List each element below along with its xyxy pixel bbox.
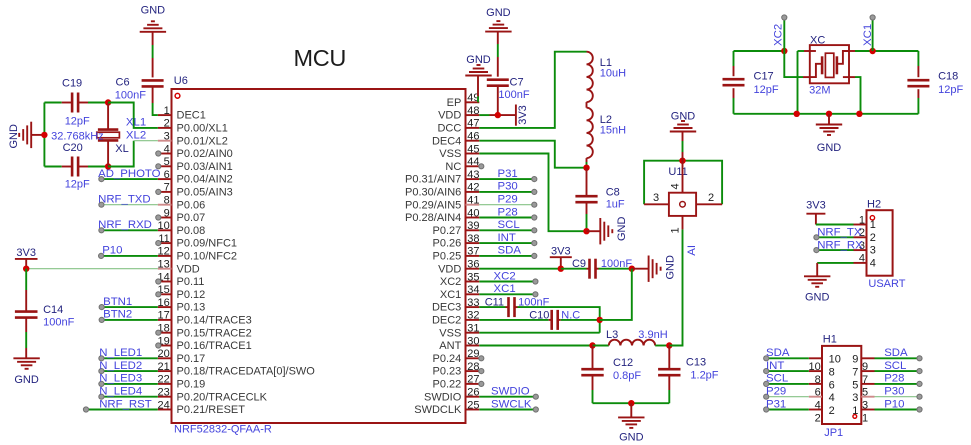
svg-text:0.8pF: 0.8pF: [613, 370, 641, 382]
svg-text:GND: GND: [14, 374, 39, 386]
svg-text:P28: P28: [884, 373, 904, 385]
wire DEC3 pin 33 to C11: [479, 306, 508, 308]
svg-text:AD_PHOTO: AD_PHOTO: [98, 168, 161, 180]
svg-text:1: 1: [852, 405, 858, 417]
svg-text:4: 4: [870, 258, 876, 270]
svg-text:P0.25: P0.25: [433, 251, 462, 263]
U6 left pin numbers: [158, 105, 170, 411]
wire bottom branch to C20: [44, 166, 72, 168]
svg-text:P0.30/AIN6: P0.30/AIN6: [405, 187, 461, 199]
svg-text:XL2: XL2: [126, 130, 146, 142]
wire net N_LED1: [101, 357, 157, 359]
svg-text:N_LED4: N_LED4: [99, 386, 142, 398]
svg-text:3V3: 3V3: [16, 247, 36, 259]
capacitor C8: [575, 186, 625, 210]
svg-text:DEC3: DEC3: [432, 302, 461, 314]
svg-text:P0.23: P0.23: [433, 366, 462, 378]
wire net NRF_RST: [86, 409, 158, 411]
svg-text:XL: XL: [115, 143, 128, 155]
svg-text:8: 8: [829, 367, 835, 379]
svg-text:XC2: XC2: [773, 24, 785, 46]
svg-text:P0.08: P0.08: [177, 225, 206, 237]
svg-text:GND: GND: [141, 5, 166, 17]
svg-text:4: 4: [859, 253, 865, 265]
supply 3V3 at pin 48: [516, 105, 529, 126]
wire net NRF_TX: [816, 236, 853, 238]
wire ANT to U11 AI: [669, 229, 682, 345]
svg-text:P0.10/NFC2: P0.10/NFC2: [177, 251, 238, 263]
label net N_LED2: [99, 360, 142, 372]
svg-text:C19: C19: [62, 78, 82, 90]
svg-text:XC1: XC1: [494, 283, 516, 295]
label net AI: [686, 245, 698, 256]
node INT stub end: [532, 241, 537, 246]
wire H2 pin 4 to GND: [817, 263, 853, 276]
IC U6 MCU body: [172, 89, 466, 423]
svg-text:C18: C18: [938, 70, 958, 82]
svg-text:EP: EP: [447, 97, 462, 109]
svg-text:DEC2: DEC2: [432, 315, 461, 327]
wire net P30 right: [875, 396, 920, 398]
svg-text:GND: GND: [671, 111, 696, 123]
svg-text:NRF_RX: NRF_RX: [817, 239, 863, 251]
svg-text:GND: GND: [805, 292, 830, 304]
node SCL right end: [917, 369, 922, 374]
wire DCC pin 47 to L1: [479, 52, 586, 128]
svg-text:7: 7: [164, 182, 170, 194]
supply 3V3 at pin 36: [550, 246, 572, 269]
svg-text:INT: INT: [498, 232, 516, 244]
wire XC2 test point: [783, 18, 785, 52]
capacitor C6: [115, 76, 164, 101]
svg-text:6: 6: [829, 379, 835, 391]
svg-text:1uF: 1uF: [606, 199, 625, 211]
svg-text:P0.29/AIN5: P0.29/AIN5: [405, 199, 461, 211]
wire XC ground rail: [734, 113, 919, 115]
label net INT: [498, 232, 516, 244]
svg-text:4: 4: [829, 392, 835, 404]
crystal XC 32M: [809, 35, 849, 97]
svg-text:SWDIO: SWDIO: [491, 386, 530, 398]
ground GND below H2: [804, 276, 830, 303]
label MCU title: [293, 45, 346, 71]
wire L3 to C13 junction: [655, 345, 669, 347]
svg-text:P0.04/AIN2: P0.04/AIN2: [177, 174, 233, 186]
ground GND above pin 49 EP: [465, 54, 491, 97]
wire C10 to junction: [558, 319, 600, 321]
label net P31 left: [766, 398, 786, 410]
wire XL2 net to pin 3: [108, 141, 158, 167]
svg-text:L3: L3: [606, 329, 618, 341]
node unconnected pin 11: [156, 241, 161, 246]
node SDA right end: [917, 356, 922, 361]
svg-text:U6: U6: [174, 75, 188, 87]
node N_LED1 stub end: [99, 356, 104, 361]
svg-text:C8: C8: [606, 186, 620, 198]
svg-text:ANT: ANT: [439, 340, 461, 352]
svg-text:10: 10: [158, 220, 170, 232]
svg-text:P0.09/NFC1: P0.09/NFC1: [177, 238, 238, 250]
svg-text:3: 3: [164, 131, 170, 143]
U11 pin 1: [670, 216, 683, 234]
wire net P28 right: [875, 383, 920, 385]
label net NRF_TXD: [98, 194, 151, 206]
node NRF_RST stub end: [83, 407, 88, 412]
label net BTN1: [103, 296, 132, 308]
connector H2 body: [867, 199, 893, 276]
label net P29: [498, 194, 518, 206]
wire C20 to XL bottom: [78, 166, 108, 168]
svg-text:23: 23: [158, 387, 170, 399]
svg-text:10uH: 10uH: [600, 68, 626, 80]
connector H1 body: [822, 334, 861, 424]
wire GND to C6: [152, 45, 154, 77]
wire net N_LED2: [101, 370, 157, 372]
svg-text:P29: P29: [766, 386, 786, 398]
wire C19 to XL top: [78, 102, 108, 104]
node XC1 stub end: [533, 292, 538, 297]
svg-text:C11: C11: [485, 297, 504, 309]
H2 value USART: [868, 278, 905, 290]
svg-text:P0.18/TRACEDATA[0]/SWO: P0.18/TRACEDATA[0]/SWO: [177, 366, 316, 378]
svg-text:1: 1: [870, 219, 876, 231]
node unconnected pin 19: [156, 343, 161, 348]
ground GND right of C8: [587, 217, 629, 245]
svg-text:6: 6: [164, 169, 170, 181]
svg-text:15nH: 15nH: [600, 125, 626, 137]
svg-text:P10: P10: [884, 398, 904, 410]
H2 pin stubs: [854, 225, 867, 263]
svg-text:SCL: SCL: [766, 373, 788, 385]
svg-text:48: 48: [467, 105, 479, 117]
label net P30: [498, 181, 518, 193]
wire C18 bottom: [917, 89, 919, 114]
svg-text:6: 6: [815, 387, 821, 399]
svg-text:30: 30: [467, 335, 479, 347]
svg-text:17: 17: [158, 310, 170, 322]
svg-text:37: 37: [467, 246, 479, 258]
node P10 right end: [917, 407, 922, 412]
svg-text:NC: NC: [445, 161, 461, 173]
svg-text:P0.02/AIN0: P0.02/AIN0: [177, 148, 233, 160]
node P28 stub end: [532, 215, 537, 220]
wire net P29 left: [766, 396, 809, 398]
svg-text:12pF: 12pF: [65, 116, 90, 128]
svg-text:1: 1: [164, 105, 170, 117]
wire net SWCLK: [479, 409, 534, 411]
svg-text:VDD: VDD: [438, 110, 461, 122]
svg-text:NRF_TXD: NRF_TXD: [98, 194, 151, 206]
node gnd rail left: [794, 111, 800, 117]
svg-text:C14: C14: [43, 304, 63, 316]
wire net BTN2: [102, 319, 158, 321]
wire net SWDIO: [479, 396, 534, 398]
wire net SCL left: [766, 383, 809, 385]
node unconnected pin 15: [156, 292, 161, 297]
ground GND left of XL: [8, 122, 45, 149]
svg-text:5: 5: [862, 387, 868, 399]
label net SCL left: [766, 373, 788, 385]
svg-text:USART: USART: [868, 278, 905, 290]
svg-text:26: 26: [467, 387, 479, 399]
svg-text:13: 13: [158, 259, 170, 271]
svg-text:40: 40: [467, 207, 479, 219]
svg-text:VDD: VDD: [177, 263, 200, 275]
label net XC1: [862, 24, 874, 46]
wire C12 to bottom rail: [592, 375, 594, 403]
wire XC1 test point: [872, 18, 874, 52]
crystal XL 32.768kHz: [51, 103, 129, 167]
svg-text:46: 46: [467, 131, 479, 143]
svg-text:7: 7: [862, 374, 868, 386]
capacitor C11: [485, 297, 550, 317]
wire C6 to pin 1 DEC1: [153, 86, 158, 115]
svg-text:P0.16/TRACE1: P0.16/TRACE1: [177, 340, 252, 352]
label net BTN2: [103, 309, 132, 321]
svg-text:VSS: VSS: [439, 148, 461, 160]
node SCL stub end: [532, 228, 537, 233]
wire net N_LED4: [101, 396, 157, 398]
svg-text:VDD: VDD: [438, 263, 461, 275]
svg-text:XC1: XC1: [440, 289, 461, 301]
svg-text:3V3: 3V3: [806, 200, 826, 212]
svg-text:MCU: MCU: [293, 45, 346, 71]
svg-text:9: 9: [164, 207, 170, 219]
node N_LED3 stub end: [99, 381, 104, 386]
svg-text:DEC1: DEC1: [177, 110, 206, 122]
svg-text:P0.19: P0.19: [177, 379, 206, 391]
wire 3V3 to H2 pin 1: [816, 224, 854, 226]
U6 value NRF52832-QFAA-R: [174, 424, 272, 436]
svg-text:SDA: SDA: [766, 347, 790, 359]
label net INT left: [766, 360, 784, 372]
label net NRF_TX: [817, 227, 862, 239]
svg-text:7: 7: [852, 367, 858, 379]
wire XC2 to crystal: [784, 51, 810, 77]
svg-text:10: 10: [809, 361, 821, 373]
wire net SCL right: [875, 370, 920, 372]
svg-text:4: 4: [164, 143, 170, 155]
wire VSS pin 45 to GND rail: [479, 154, 586, 232]
wire L1 to L2: [586, 102, 588, 108]
svg-text:32: 32: [467, 310, 479, 322]
U6 reference designator: [174, 75, 188, 87]
svg-text:SCL: SCL: [884, 360, 906, 372]
node NRF_RXD stub end: [99, 228, 104, 233]
svg-text:C17: C17: [754, 70, 774, 82]
svg-text:38: 38: [467, 233, 479, 245]
svg-text:P0.24: P0.24: [433, 353, 462, 365]
wire ANT pin 30: [479, 345, 592, 347]
wire DEC4 to C8: [586, 168, 588, 197]
label net SDA left: [766, 347, 790, 359]
supply 3V3 left: [15, 247, 38, 269]
svg-text:100nF: 100nF: [43, 317, 74, 329]
node NRF_TXD stub end: [99, 202, 104, 207]
svg-text:N_LED1: N_LED1: [99, 347, 142, 359]
label net P28: [498, 206, 518, 218]
label net NRF_RST: [99, 398, 152, 410]
node C8 ground junction: [583, 228, 589, 234]
svg-text:SDA: SDA: [884, 347, 908, 359]
node gnd rail right: [856, 111, 862, 117]
svg-text:GND: GND: [8, 124, 20, 149]
svg-text:SDA: SDA: [498, 245, 522, 257]
svg-text:28: 28: [467, 361, 479, 373]
svg-text:1.2pF: 1.2pF: [690, 370, 718, 382]
wire net NRF_RXD: [101, 229, 157, 231]
svg-text:36: 36: [467, 259, 479, 271]
wire net P10: [101, 255, 158, 257]
capacitor C17: [723, 70, 779, 96]
wire net INT: [479, 242, 533, 244]
node unconnected pin 18: [156, 330, 161, 335]
svg-text:1: 1: [670, 227, 682, 233]
capacitor C18: [907, 70, 963, 96]
H2 pin names inside: [870, 219, 876, 269]
label net SCL right: [884, 360, 906, 372]
wire net AD_PHOTO: [101, 178, 157, 180]
svg-text:3.9nH: 3.9nH: [638, 329, 667, 341]
node antenna filter ground: [628, 400, 634, 406]
U6 right pin stubs 25-49: [466, 102, 480, 409]
wire crystal gnd left: [798, 51, 810, 114]
svg-text:P30: P30: [498, 181, 518, 193]
wire DEC4 pin 46: [479, 141, 586, 168]
wire GND to C7: [497, 44, 499, 77]
svg-text:P0.31/AIN7: P0.31/AIN7: [405, 174, 461, 186]
svg-text:3V3: 3V3: [551, 246, 571, 258]
svg-text:VSS: VSS: [439, 327, 461, 339]
label net XC2: [494, 270, 516, 282]
svg-text:P31: P31: [766, 398, 786, 410]
wire net NRF_TXD: [101, 204, 157, 206]
U6 right pin numbers: [467, 92, 479, 411]
node unconnected pin 28: [479, 369, 484, 374]
node NRF_RX end: [814, 248, 819, 253]
wire net P28: [479, 217, 533, 219]
node P30 right end: [917, 394, 922, 399]
label net NRF_RXD: [98, 219, 152, 231]
label net XC1: [494, 283, 516, 295]
svg-text:2: 2: [708, 192, 714, 204]
svg-text:20: 20: [158, 348, 170, 360]
svg-text:P0.13: P0.13: [177, 302, 206, 314]
svg-text:U11: U11: [668, 166, 687, 178]
label net N_LED3: [99, 373, 142, 385]
svg-text:P0.05/AIN3: P0.05/AIN3: [177, 187, 233, 199]
svg-text:12: 12: [158, 246, 170, 258]
svg-text:SWCLK: SWCLK: [491, 398, 532, 410]
svg-text:12pF: 12pF: [938, 84, 963, 96]
svg-text:5: 5: [852, 379, 858, 391]
wire net NRF_RX: [816, 249, 853, 251]
node XL top junction: [105, 99, 111, 105]
svg-text:100nF: 100nF: [498, 89, 529, 101]
svg-text:3: 3: [870, 245, 876, 257]
svg-text:SWDIO: SWDIO: [424, 391, 462, 403]
node C9 ground junction: [629, 266, 635, 272]
wire EP pin 49 to GND: [477, 96, 479, 102]
wire 3V3 to C14: [25, 269, 27, 312]
svg-text:P28: P28: [498, 206, 518, 218]
svg-text:5: 5: [164, 156, 170, 168]
svg-text:C10: C10: [529, 310, 549, 322]
svg-text:9: 9: [862, 361, 868, 373]
wire net P10 right: [875, 409, 920, 411]
svg-text:41: 41: [467, 195, 479, 207]
U11 pin 3: [644, 192, 669, 204]
wire XC2 rail: [734, 50, 785, 52]
label net N_LED1: [99, 347, 142, 359]
wire net XC2: [479, 281, 534, 283]
node VDD 36 junction: [558, 266, 564, 272]
node P28 right end: [917, 381, 922, 386]
wire L2 to DEC4 junction: [586, 158, 588, 168]
wire net SDA: [479, 255, 533, 257]
svg-text:21: 21: [158, 361, 170, 373]
svg-text:12pF: 12pF: [754, 84, 779, 96]
svg-text:P0.26: P0.26: [433, 238, 462, 250]
svg-text:22: 22: [158, 374, 170, 386]
wire C13 to bottom rail: [668, 375, 670, 403]
svg-text:SCL: SCL: [498, 219, 520, 231]
svg-text:45: 45: [467, 143, 479, 155]
node unconnected pin 44: [479, 164, 484, 169]
svg-text:C9: C9: [572, 258, 586, 270]
svg-text:GND: GND: [619, 431, 644, 443]
capacitor C14: [15, 304, 75, 329]
label net P29 left: [766, 386, 786, 398]
svg-text:XC2: XC2: [440, 276, 461, 288]
svg-text:GND: GND: [616, 217, 628, 242]
U6 left pin stubs 1-24: [158, 115, 172, 409]
node P29 left end: [764, 394, 769, 399]
label net XC2: [773, 24, 785, 46]
wire net P30: [479, 191, 533, 193]
svg-text:GND: GND: [486, 7, 511, 19]
inductor L3 3.9nH: [606, 329, 668, 345]
capacitor C20: [63, 142, 90, 190]
svg-text:P0.22: P0.22: [433, 379, 462, 391]
svg-text:3: 3: [653, 192, 659, 204]
svg-text:P0.28/AIN4: P0.28/AIN4: [405, 212, 461, 224]
svg-text:4: 4: [670, 183, 682, 189]
svg-text:3: 3: [862, 400, 868, 412]
wire XC1 rail: [849, 50, 918, 52]
svg-text:NRF_RST: NRF_RST: [99, 398, 152, 410]
ground GND above U11: [670, 111, 696, 161]
capacitor C19: [62, 78, 90, 128]
svg-text:XC2: XC2: [494, 270, 516, 282]
wire C12 C13 bottom rail: [593, 402, 670, 404]
svg-text:DEC4: DEC4: [432, 135, 461, 147]
wire net N_LED3: [101, 383, 157, 385]
svg-text:8: 8: [815, 374, 821, 386]
U6 right pin names: [405, 97, 462, 416]
H1 pin names inside: [829, 354, 859, 417]
node unconnected pin 9: [156, 215, 161, 220]
label net P10: [102, 245, 122, 257]
ground GND below C14: [13, 358, 39, 386]
label net XL2: [126, 130, 146, 142]
node BTN2 stub end: [99, 317, 104, 322]
wire VDD pin 48: [479, 114, 516, 116]
wire net SDA right: [875, 357, 920, 359]
label net SCL: [498, 219, 520, 231]
svg-text:100nF: 100nF: [115, 90, 146, 102]
node XC2 stub end: [533, 279, 538, 284]
